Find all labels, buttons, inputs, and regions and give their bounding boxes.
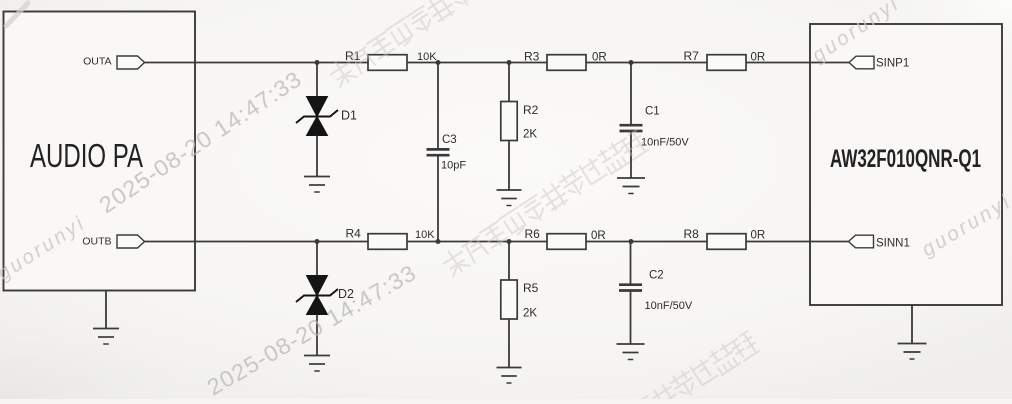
svg-text:OUTA: OUTA <box>83 55 111 67</box>
wire R4 to R6 <box>407 241 547 243</box>
svg-text:10K: 10K <box>415 229 435 241</box>
wire OUTB to R4 <box>145 241 369 243</box>
node junction C3/top <box>436 60 441 65</box>
block AW32F010QNR-Q1 <box>810 24 1002 305</box>
resistor R2 2K <box>501 63 539 191</box>
node junction C3/bottom <box>436 239 441 244</box>
capacitor C1 10nF/50V <box>620 63 690 179</box>
svg-text:2K: 2K <box>523 129 537 141</box>
resistor R8 0R <box>684 227 766 249</box>
wire R3 to R7 <box>586 62 707 64</box>
wire R7 to SINP1 <box>746 62 849 64</box>
ground C1 <box>617 178 645 194</box>
capacitor C2 10nF/50V <box>619 242 693 345</box>
svg-text:OUTB: OUTB <box>82 235 111 247</box>
ground D2 <box>304 356 330 372</box>
resistor R7 0R <box>684 49 766 70</box>
svg-text:10K: 10K <box>417 51 437 63</box>
pin SINN1 <box>849 235 910 249</box>
resistor R1 10K <box>345 49 437 70</box>
node junction R5/bottom <box>507 239 512 244</box>
svg-text:R5: R5 <box>523 281 539 295</box>
wire OUTA to R1 <box>145 62 369 64</box>
ground C2 <box>617 344 645 360</box>
node junction C2/bottom <box>629 239 634 244</box>
ground R5 <box>497 368 522 384</box>
block AUDIO PA <box>4 12 196 291</box>
svg-text:2K: 2K <box>523 308 537 320</box>
svg-text:10nF/50V: 10nF/50V <box>645 300 693 312</box>
svg-text:R3: R3 <box>524 50 540 64</box>
pin OUTA <box>83 55 144 69</box>
svg-text:0R: 0R <box>751 230 766 242</box>
svg-text:0R: 0R <box>591 230 606 242</box>
svg-text:R4: R4 <box>346 227 362 241</box>
svg-text:D1: D1 <box>341 109 357 123</box>
resistor R3 0R <box>524 50 607 71</box>
svg-text:SINN1: SINN1 <box>876 238 910 250</box>
svg-text:10pF: 10pF <box>441 160 466 172</box>
node junction R2/top <box>507 60 512 65</box>
wire R8 to SINN1 <box>746 241 849 243</box>
ground AUDIO PA <box>93 291 119 345</box>
node junction D2/bottom <box>315 239 320 244</box>
svg-text:C1: C1 <box>645 106 660 118</box>
resistor R5 2K <box>501 242 539 368</box>
svg-text:10nF/50V: 10nF/50V <box>641 137 689 149</box>
resistor R4 10K <box>346 227 436 250</box>
svg-text:C3: C3 <box>442 134 457 146</box>
diode D1 TVS <box>296 63 357 177</box>
pin SINP1 <box>849 56 909 69</box>
ground R2 <box>497 190 522 206</box>
svg-text:AW32F010QNR-Q1: AW32F010QNR-Q1 <box>830 145 981 173</box>
node junction D1/top <box>315 60 320 65</box>
ground AW32F010QNR-Q1 <box>898 305 927 359</box>
diode D2 TVS <box>296 242 354 356</box>
svg-text:SINP1: SINP1 <box>876 58 909 70</box>
pin OUTB <box>82 235 144 248</box>
svg-text:R7: R7 <box>684 49 700 63</box>
resistor R6 0R <box>525 227 606 249</box>
svg-text:C2: C2 <box>649 270 664 282</box>
capacitor C3 10pF <box>427 63 467 242</box>
svg-text:R6: R6 <box>525 227 541 241</box>
svg-text:R8: R8 <box>684 227 700 241</box>
ground D1 <box>304 177 330 193</box>
svg-text:AUDIO PA: AUDIO PA <box>30 138 144 175</box>
wire R6 to R8 <box>586 241 707 243</box>
node junction C1/top <box>629 60 634 65</box>
svg-text:R2: R2 <box>523 103 539 117</box>
wire R1 to R3 <box>407 62 547 64</box>
